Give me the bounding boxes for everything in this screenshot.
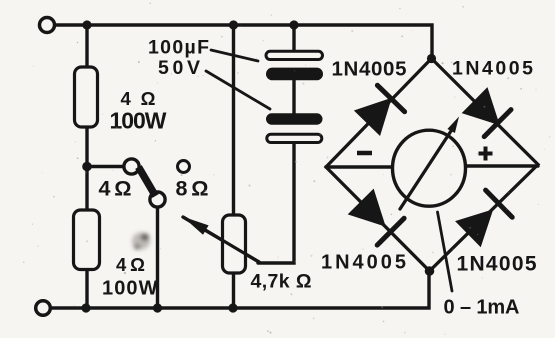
svg-text:50V: 50V — [158, 57, 200, 79]
svg-text:8Ω: 8Ω — [176, 177, 209, 201]
svg-text:4,7k Ω: 4,7k Ω — [251, 271, 312, 293]
svg-text:4Ω: 4Ω — [116, 254, 145, 275]
svg-text:1N4005: 1N4005 — [332, 58, 407, 81]
svg-text:1N4005: 1N4005 — [457, 253, 537, 276]
svg-text:100µF: 100µF — [148, 37, 209, 59]
svg-text:4Ω: 4Ω — [99, 177, 132, 201]
svg-text:100W: 100W — [110, 108, 167, 134]
svg-text:0 – 1mA: 0 – 1mA — [444, 297, 520, 319]
svg-text:4 Ω: 4 Ω — [121, 88, 156, 109]
svg-text:100W: 100W — [102, 278, 158, 300]
